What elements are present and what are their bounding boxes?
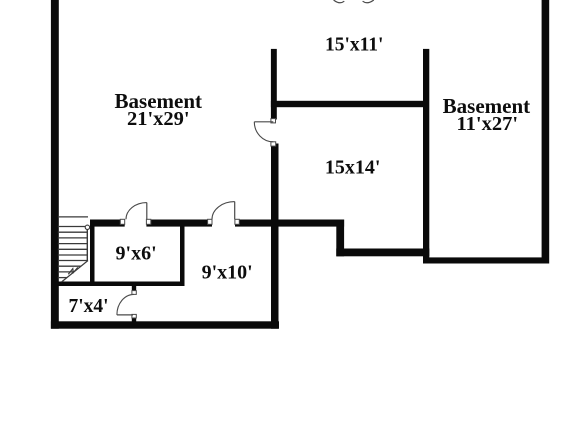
door4 wall stub lower bbox=[132, 318, 136, 322]
door D1 leaf bbox=[254, 121, 273, 123]
stairs break diagonal bbox=[62, 261, 89, 283]
right outer wall bbox=[542, 0, 550, 264]
door D3 swing arc bbox=[212, 202, 235, 220]
door D3 leaf bbox=[234, 202, 236, 220]
door D1 jamb upper bbox=[271, 119, 276, 123]
interior wall A upper vertical bbox=[271, 49, 277, 120]
stairs treads bbox=[58, 227, 88, 278]
wall segment door3 to step wall bbox=[235, 220, 344, 227]
door D2 jamb right bbox=[146, 219, 150, 224]
svg-text:9'x6': 9'x6' bbox=[116, 243, 157, 265]
stairs rail line bbox=[86, 228, 88, 261]
room 9x6 bottom wall bbox=[53, 282, 185, 287]
door D3 jamb left bbox=[208, 219, 212, 224]
stairs top edge line bbox=[58, 216, 88, 218]
step wall horizontal mid bbox=[336, 249, 429, 257]
wall segment between door2 and door3 bbox=[146, 220, 212, 227]
svg-text:21'x29': 21'x29' bbox=[127, 108, 190, 130]
left outer wall bbox=[51, 0, 59, 329]
room 9x6 right wall bbox=[180, 220, 185, 287]
wall with doors: segment stairs to door2 bbox=[90, 220, 125, 227]
door D3 jamb right bbox=[235, 219, 239, 224]
door D4 swing arc bbox=[117, 294, 134, 315]
step wall vertical bbox=[336, 220, 344, 257]
stairs newel circle bbox=[85, 225, 89, 229]
svg-text:15'x11': 15'x11' bbox=[325, 35, 384, 56]
bottom outer wall left section bbox=[51, 321, 279, 328]
door D2 swing arc bbox=[126, 203, 147, 220]
door D4 jamb upper bbox=[132, 291, 136, 295]
interior wall B lower vertical bbox=[271, 144, 279, 329]
door D4 leaf bbox=[117, 314, 133, 316]
door D2 leaf bbox=[146, 203, 148, 220]
door D2 jamb left bbox=[120, 219, 124, 224]
svg-text:9'x10': 9'x10' bbox=[202, 261, 253, 283]
door D4 jamb lower bbox=[132, 314, 136, 318]
door D1 jamb lower bbox=[271, 142, 276, 146]
door D1 swing arc bbox=[254, 122, 273, 142]
interior wall C right vertical bbox=[423, 49, 429, 264]
top double door arc right fragment bbox=[363, 0, 374, 3]
svg-text:15x14': 15x14' bbox=[325, 157, 381, 179]
bottom outer wall right section bbox=[425, 257, 549, 263]
top double door arc left fragment bbox=[334, 0, 345, 3]
door4 wall stub upper bbox=[132, 286, 136, 291]
svg-text:11'x27': 11'x27' bbox=[457, 113, 519, 135]
svg-text:7'x4': 7'x4' bbox=[68, 296, 108, 317]
stairs direction zigzag arrow bbox=[68, 267, 78, 274]
interior horizontal wall between 15x11 and 15x14 bbox=[271, 101, 429, 107]
room 9x6 left wall bbox=[90, 220, 95, 287]
